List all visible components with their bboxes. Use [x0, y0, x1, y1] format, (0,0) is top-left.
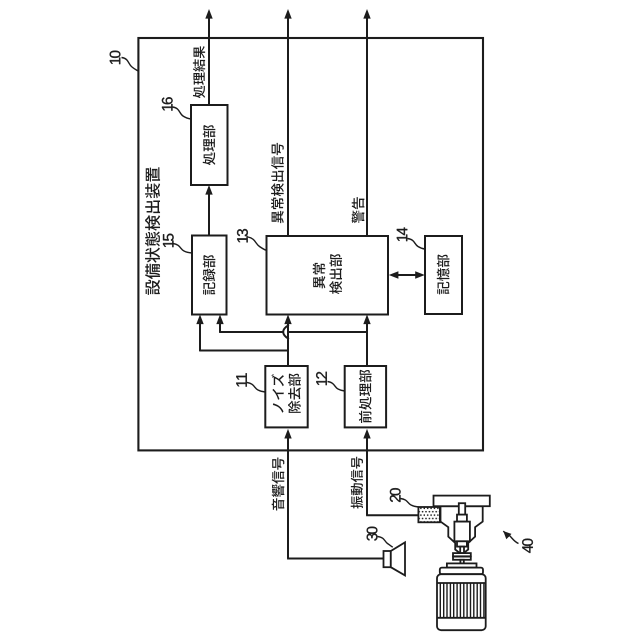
machine 40: coupling disc upper [453, 553, 471, 556]
motor: top flange strip [447, 563, 477, 567]
wire: branch from noise-remover line to recorder (Y=350.5) [200, 350, 288, 352]
label: acoustic signal [272, 457, 285, 510]
box text: preprocessor [359, 370, 372, 423]
leader for label 13 [248, 237, 267, 250]
reference numeral 14 [397, 227, 407, 241]
machine 40: gearbox bell housing [441, 506, 483, 553]
reference numeral 10 [110, 51, 121, 64]
machine 40: spindle stem through plate [459, 503, 465, 515]
motor: cap band [440, 568, 483, 575]
arrowhead: anomaly detection signal output [284, 9, 291, 19]
box text: memory [437, 255, 450, 295]
leader for label 30 [378, 537, 393, 548]
label: processing result [193, 46, 205, 98]
reference numeral 11 [236, 373, 246, 386]
machine 40: lower stem [460, 547, 464, 554]
leader for label 10 [122, 58, 139, 72]
label: warning [352, 197, 365, 223]
wire: vibration signal into preprocessor 12 [366, 437, 368, 515]
machine 40: central block [454, 522, 470, 542]
block: anomaly detector 13 [267, 236, 389, 315]
box text: remover (line 2) [288, 374, 301, 413]
machine 40: motor shaft [460, 560, 463, 564]
machine 40: lower collar [457, 541, 467, 546]
wire: speaker 30 to acoustic line [287, 558, 383, 560]
wire: warning output line [366, 19, 368, 237]
wire: recorder 15 to processor 16 [208, 194, 210, 236]
leader for label 12 [328, 382, 345, 392]
reference numeral 13 [237, 229, 248, 242]
label: anomaly detection signal [271, 143, 284, 223]
wire: acoustic signal into noise remover 11 [287, 437, 289, 559]
wire: preprocessor 12 up to anomaly detector 13 [366, 323, 368, 367]
block: noise remover 11 [265, 366, 307, 427]
speaker 30: cone [391, 542, 405, 575]
block: recorder 15 [192, 236, 227, 315]
sensor 20: accelerometer (hatched) [418, 507, 440, 522]
leader for label 14 [408, 239, 426, 250]
wire: processing result output line [208, 19, 210, 106]
label: device name (equipment state detection device) [145, 167, 160, 295]
reference numeral 20 [390, 488, 401, 502]
box text: anomaly (line 1) [313, 263, 326, 289]
arrowhead: into processor 16 [205, 185, 212, 195]
arrowhead: vibration signal into preprocessor 12 [363, 429, 370, 439]
reference numeral 16 [162, 97, 173, 110]
arrowhead: noise remover into detector 13 [284, 315, 291, 325]
arrowhead: into memory 14 [415, 271, 425, 278]
box text: noise (line 1) [272, 374, 284, 413]
motor: fin area bottom line [437, 617, 486, 619]
speaker 30: driver box [384, 551, 391, 567]
block: processor 16 [191, 105, 228, 185]
machine 40: top mounting plate [434, 496, 490, 507]
motor: cylinder body [437, 574, 486, 630]
leader for label 15 [173, 244, 192, 254]
wire: sensor 20 to vibration line [366, 514, 418, 516]
arrowhead: warning output [363, 9, 370, 19]
block: preprocessor 12 [345, 366, 386, 427]
box text: detector (line 2) [329, 254, 342, 294]
motor: fin area top line [437, 582, 486, 584]
pointer arrow for label 40 [510, 536, 519, 544]
box text: recorder [203, 255, 216, 295]
box text: processor [203, 125, 216, 165]
wire hop over vertical line at X=288 [283, 325, 289, 339]
wire: bidirectional link detector 13 / memory 14 [397, 274, 417, 276]
machine 40: upper collar [457, 515, 467, 522]
motor: cooling fins [440, 583, 484, 618]
arrowhead: acoustic signal into noise remover 11 [284, 429, 291, 439]
arrowhead: into recorder 15 (from preprocessor branch) [216, 315, 223, 325]
wire: branch from preprocessor line to recorder (Y=332) [288, 331, 367, 333]
outer box: equipment state detection device 10 [138, 38, 483, 450]
arrowhead: into recorder 15 (from noise remover branch) [196, 315, 203, 325]
machine 40: coupling disc lower [453, 557, 471, 560]
label: vibration signal [351, 457, 363, 509]
wire: anomaly detection signal output line [287, 19, 289, 237]
reference numeral 30 [367, 527, 378, 541]
reference numeral 40 [522, 539, 533, 553]
block: memory 14 [425, 236, 462, 314]
leader for label 11 [247, 383, 265, 393]
arrowhead: preprocessor into detector 13 [363, 315, 370, 325]
arrowhead: into detector 13 (from memory 14) [389, 271, 399, 278]
leader for label 20 [401, 499, 419, 508]
reference numeral 12 [316, 372, 327, 385]
leader for label 16 [173, 107, 192, 119]
reference numeral 15 [163, 234, 174, 247]
arrowhead: processing result output [205, 9, 212, 19]
wire: noise remover 11 up to anomaly detector 13 [287, 323, 289, 367]
